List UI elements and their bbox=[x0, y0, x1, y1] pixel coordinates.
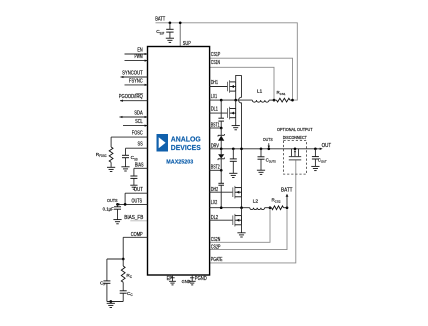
svg-text:OUTS: OUTS bbox=[107, 198, 118, 204]
svg-text:BIAS_FB: BIAS_FB bbox=[124, 215, 144, 221]
svg-text:COMP: COMP bbox=[131, 232, 144, 238]
svg-text:PGND: PGND bbox=[195, 276, 207, 282]
svg-text:SCL: SCL bbox=[135, 119, 143, 125]
svg-text:BATT: BATT bbox=[281, 187, 293, 193]
svg-text:BST2: BST2 bbox=[211, 165, 220, 171]
svg-text:LX1: LX1 bbox=[211, 94, 217, 100]
svg-text:OUTS: OUTS bbox=[263, 137, 273, 143]
svg-text:DEVICES: DEVICES bbox=[171, 143, 201, 152]
svg-text:SYNCOUT: SYNCOUT bbox=[122, 70, 143, 76]
svg-text:CS1P: CS1P bbox=[211, 52, 221, 58]
svg-text:OUT: OUT bbox=[134, 187, 143, 193]
svg-text:SDA: SDA bbox=[134, 111, 143, 117]
svg-text:CS2N: CS2N bbox=[211, 237, 221, 243]
svg-text:DH1: DH1 bbox=[211, 80, 218, 86]
svg-text:OUTS: OUTS bbox=[132, 198, 143, 204]
svg-text:BATT: BATT bbox=[155, 17, 165, 23]
svg-text:SS: SS bbox=[138, 142, 144, 148]
svg-text:DL1: DL1 bbox=[211, 106, 218, 112]
svg-text:PWM: PWM bbox=[135, 54, 143, 60]
svg-text:CS1N: CS1N bbox=[211, 60, 220, 66]
svg-text:FOSC: FOSC bbox=[132, 131, 143, 137]
svg-text:MAX25203: MAX25203 bbox=[166, 159, 193, 165]
svg-text:0.1µF: 0.1µF bbox=[103, 206, 114, 211]
svg-text:PGATE: PGATE bbox=[211, 257, 223, 263]
svg-text:EN: EN bbox=[137, 47, 143, 53]
svg-text:CS2P: CS2P bbox=[211, 245, 221, 251]
svg-text:PGOOD/IRQ: PGOOD/IRQ bbox=[119, 94, 143, 100]
svg-text:OPTIONAL OUTPUT: OPTIONAL OUTPUT bbox=[277, 127, 313, 132]
svg-text:OUT: OUT bbox=[322, 143, 332, 149]
svg-text:BIAS: BIAS bbox=[135, 162, 144, 168]
svg-text:L1: L1 bbox=[257, 89, 263, 95]
svg-text:LX2: LX2 bbox=[211, 200, 218, 206]
svg-text:L2: L2 bbox=[253, 198, 259, 204]
svg-text:DISCONNECT: DISCONNECT bbox=[283, 135, 307, 140]
svg-text:FSYNC: FSYNC bbox=[129, 78, 143, 84]
